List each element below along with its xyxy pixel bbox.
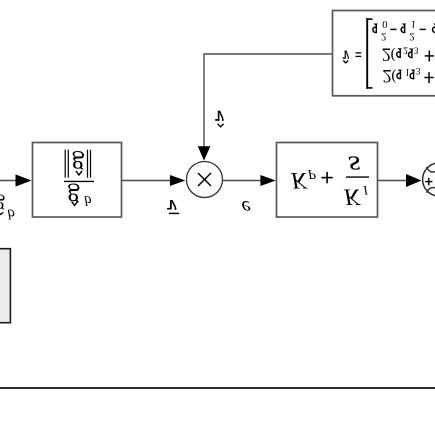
multiplier circle with X — [187, 162, 223, 198]
caron below top g — [76, 171, 82, 175]
wire PI block to sum circle — [378, 180, 409, 182]
row2 plus — [425, 55, 434, 57]
matrix row2: flipped 2(q2 q3 + q... — [397, 48, 402, 57]
node input label ghat^b (flipped, cut at left edge) — [0, 194, 15, 222]
svg-text:0: 0 — [382, 18, 387, 29]
horizontal rule near bottom — [0, 387, 435, 389]
matrix row1: flipped q0^2 - q1^2 - q... — [373, 24, 378, 33]
seam curves in sum circle — [427, 167, 435, 172]
wire from matrix box left, down into multiplier — [204, 54, 333, 148]
fraction bar block1 — [64, 180, 94, 182]
arrowhead into sum — [406, 174, 422, 187]
node label qbar (flipped q with bar below) — [167, 200, 176, 210]
svg-text:1: 1 — [405, 66, 410, 77]
arrowhead down into multiplier — [198, 146, 211, 160]
svg-text:1: 1 — [411, 18, 416, 29]
plus sign in PI block — [321, 177, 332, 179]
svg-text:2: 2 — [403, 44, 408, 54]
arrowhead into multiplier — [170, 175, 185, 186]
arrowhead into PI block — [260, 175, 275, 186]
PI text K_P + K_I/s (flipped) — [290, 149, 368, 209]
caron below bottom g — [72, 202, 78, 206]
matrix row3: flipped 2(q1 q3 + q... — [397, 70, 402, 79]
svg-text:3: 3 — [416, 65, 421, 75]
wire multiplier to PI block — [223, 180, 262, 182]
matrix left bracket — [366, 18, 368, 89]
node label qhat on vertical wire (flipped q, caron below) — [215, 111, 224, 121]
svg-text:(: ( — [391, 47, 396, 63]
norm double bars — [64, 150, 66, 178]
svg-text:I: I — [362, 183, 368, 198]
block PI controller — [277, 143, 378, 218]
svg-text:2: 2 — [381, 30, 387, 42]
block normalize gravity — [33, 143, 122, 218]
svg-text:(: ( — [391, 68, 396, 84]
svg-text:3: 3 — [414, 44, 419, 54]
sum junction circle at right edge — [423, 163, 435, 196]
svg-text:K: K — [343, 184, 361, 210]
svg-text:e: e — [242, 196, 251, 220]
svg-text:P: P — [307, 167, 316, 182]
block1 fraction text ghat^b over norm ghat (flipped) — [67, 151, 92, 213]
row3 plus — [424, 77, 433, 79]
node label e (flipped italic e) — [242, 196, 251, 220]
svg-text:b: b — [7, 205, 15, 221]
fraction bar PI block — [346, 176, 369, 178]
equals sign — [356, 52, 362, 54]
svg-text:2: 2 — [409, 30, 415, 42]
matrix box top right — [333, 11, 435, 96]
wire normalize to multiplier — [122, 180, 172, 182]
svg-text:g: g — [67, 183, 80, 212]
row1 minus signs — [390, 28, 396, 30]
svg-text:g: g — [72, 151, 85, 180]
plus sign in sum circle — [425, 181, 432, 183]
wire input into normalize block — [0, 180, 18, 182]
svg-text:K: K — [290, 167, 308, 193]
matrix label qhat (flipped q, caron below) — [343, 50, 349, 59]
svg-text:2: 2 — [383, 65, 392, 85]
gray box bottom left — [0, 249, 10, 323]
svg-text:b: b — [84, 192, 92, 208]
arrowhead input — [16, 174, 32, 186]
svg-text:s: s — [348, 149, 361, 180]
svg-text:2: 2 — [382, 44, 391, 64]
